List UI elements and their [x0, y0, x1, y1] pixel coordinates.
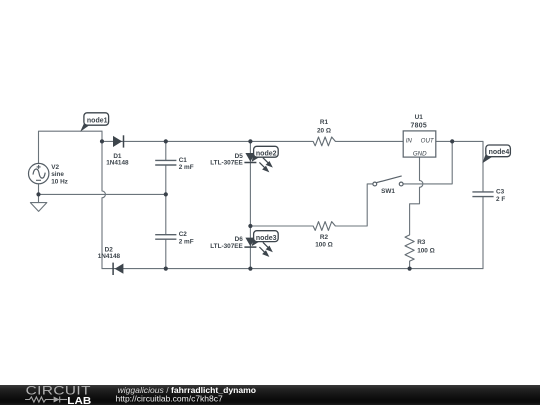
- svg-text:IN: IN: [406, 137, 413, 144]
- svg-text:C1: C1: [179, 157, 188, 164]
- svg-text:node1: node1: [87, 117, 108, 124]
- svg-text:100 Ω: 100 Ω: [315, 241, 333, 248]
- svg-text:SW1: SW1: [381, 188, 395, 195]
- svg-text:node3: node3: [256, 235, 277, 242]
- svg-text:node2: node2: [256, 150, 277, 157]
- svg-text:2 F: 2 F: [496, 196, 505, 203]
- svg-text:C3: C3: [496, 188, 505, 195]
- svg-text:LAB: LAB: [67, 396, 91, 405]
- svg-text:http://circuitlab.com/c7kh8c7: http://circuitlab.com/c7kh8c7: [116, 394, 224, 404]
- svg-text:R3: R3: [417, 239, 426, 246]
- svg-text:V2: V2: [51, 164, 59, 171]
- svg-text:LTL-307EE: LTL-307EE: [210, 159, 243, 166]
- svg-text:20 Ω: 20 Ω: [317, 128, 331, 135]
- svg-text:OUT: OUT: [421, 137, 435, 144]
- svg-text:U1: U1: [415, 114, 424, 121]
- svg-text:node4: node4: [489, 149, 510, 156]
- svg-text:C2: C2: [179, 231, 188, 238]
- svg-text:LTL-307EE: LTL-307EE: [210, 243, 243, 250]
- svg-text:R2: R2: [320, 234, 329, 241]
- svg-text:1N4148: 1N4148: [98, 253, 121, 260]
- svg-text:2 mF: 2 mF: [179, 164, 194, 171]
- svg-text:10 Hz: 10 Hz: [51, 178, 68, 185]
- svg-text:1N4148: 1N4148: [106, 160, 129, 167]
- svg-text:100 Ω: 100 Ω: [417, 247, 435, 254]
- svg-text:GND: GND: [413, 151, 427, 158]
- svg-text:R1: R1: [320, 119, 329, 126]
- svg-text:2 mF: 2 mF: [179, 239, 194, 246]
- svg-text:7805: 7805: [411, 122, 428, 129]
- svg-text:sine: sine: [51, 171, 64, 178]
